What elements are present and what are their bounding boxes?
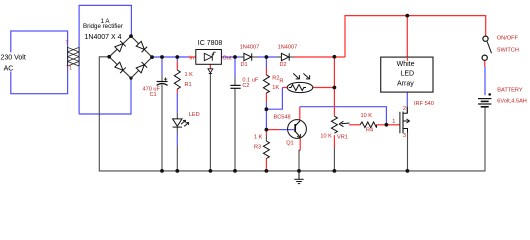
svg-text:3: 3: [403, 133, 406, 139]
svg-text:SWITCH: SWITCH: [497, 47, 519, 53]
svg-text:Out: Out: [222, 56, 231, 62]
svg-text:10 K: 10 K: [361, 113, 373, 119]
svg-text:R: R: [279, 79, 283, 85]
svg-text:R2: R2: [272, 75, 279, 81]
svg-text:Array: Array: [397, 80, 414, 87]
svg-text:C2: C2: [242, 83, 249, 89]
svg-text:1 K: 1 K: [254, 134, 263, 140]
svg-text:T1: T1: [66, 65, 72, 71]
svg-text:C1: C1: [150, 92, 157, 98]
svg-text:T: T: [66, 40, 69, 46]
svg-text:LED: LED: [189, 112, 200, 118]
svg-text:2: 2: [403, 106, 406, 112]
svg-text:230 Volt: 230 Volt: [1, 55, 26, 62]
svg-text:IRF 540: IRF 540: [414, 101, 434, 107]
svg-text:D2: D2: [280, 62, 287, 68]
svg-text:R1: R1: [185, 82, 192, 88]
svg-text:BATTERY: BATTERY: [497, 88, 523, 94]
svg-text:AC: AC: [4, 65, 14, 72]
svg-text:IC 7808: IC 7808: [198, 40, 223, 47]
svg-text:1 K: 1 K: [185, 72, 194, 78]
svg-text:VR1: VR1: [337, 135, 348, 141]
svg-text:1N4007: 1N4007: [240, 45, 260, 51]
svg-text:Bridge rectifier: Bridge rectifier: [83, 23, 123, 30]
svg-text:R3: R3: [254, 144, 261, 150]
svg-text:In: In: [189, 55, 194, 61]
svg-text:1: 1: [392, 119, 395, 125]
svg-text:R4: R4: [366, 127, 373, 133]
svg-text:10 K: 10 K: [320, 133, 332, 139]
svg-text:1K: 1K: [272, 85, 279, 91]
svg-text:ON/OFF: ON/OFF: [497, 35, 519, 41]
svg-text:Q1: Q1: [286, 141, 293, 147]
svg-text:BC548: BC548: [274, 114, 291, 120]
svg-text:1N4007: 1N4007: [278, 45, 298, 51]
svg-text:LED: LED: [401, 71, 415, 78]
svg-text:1N4007 X 4: 1N4007 X 4: [85, 34, 122, 41]
svg-text:White: White: [397, 61, 415, 68]
svg-text:6Volt,4.5AH: 6Volt,4.5AH: [497, 99, 527, 105]
svg-text:D1: D1: [241, 62, 248, 68]
